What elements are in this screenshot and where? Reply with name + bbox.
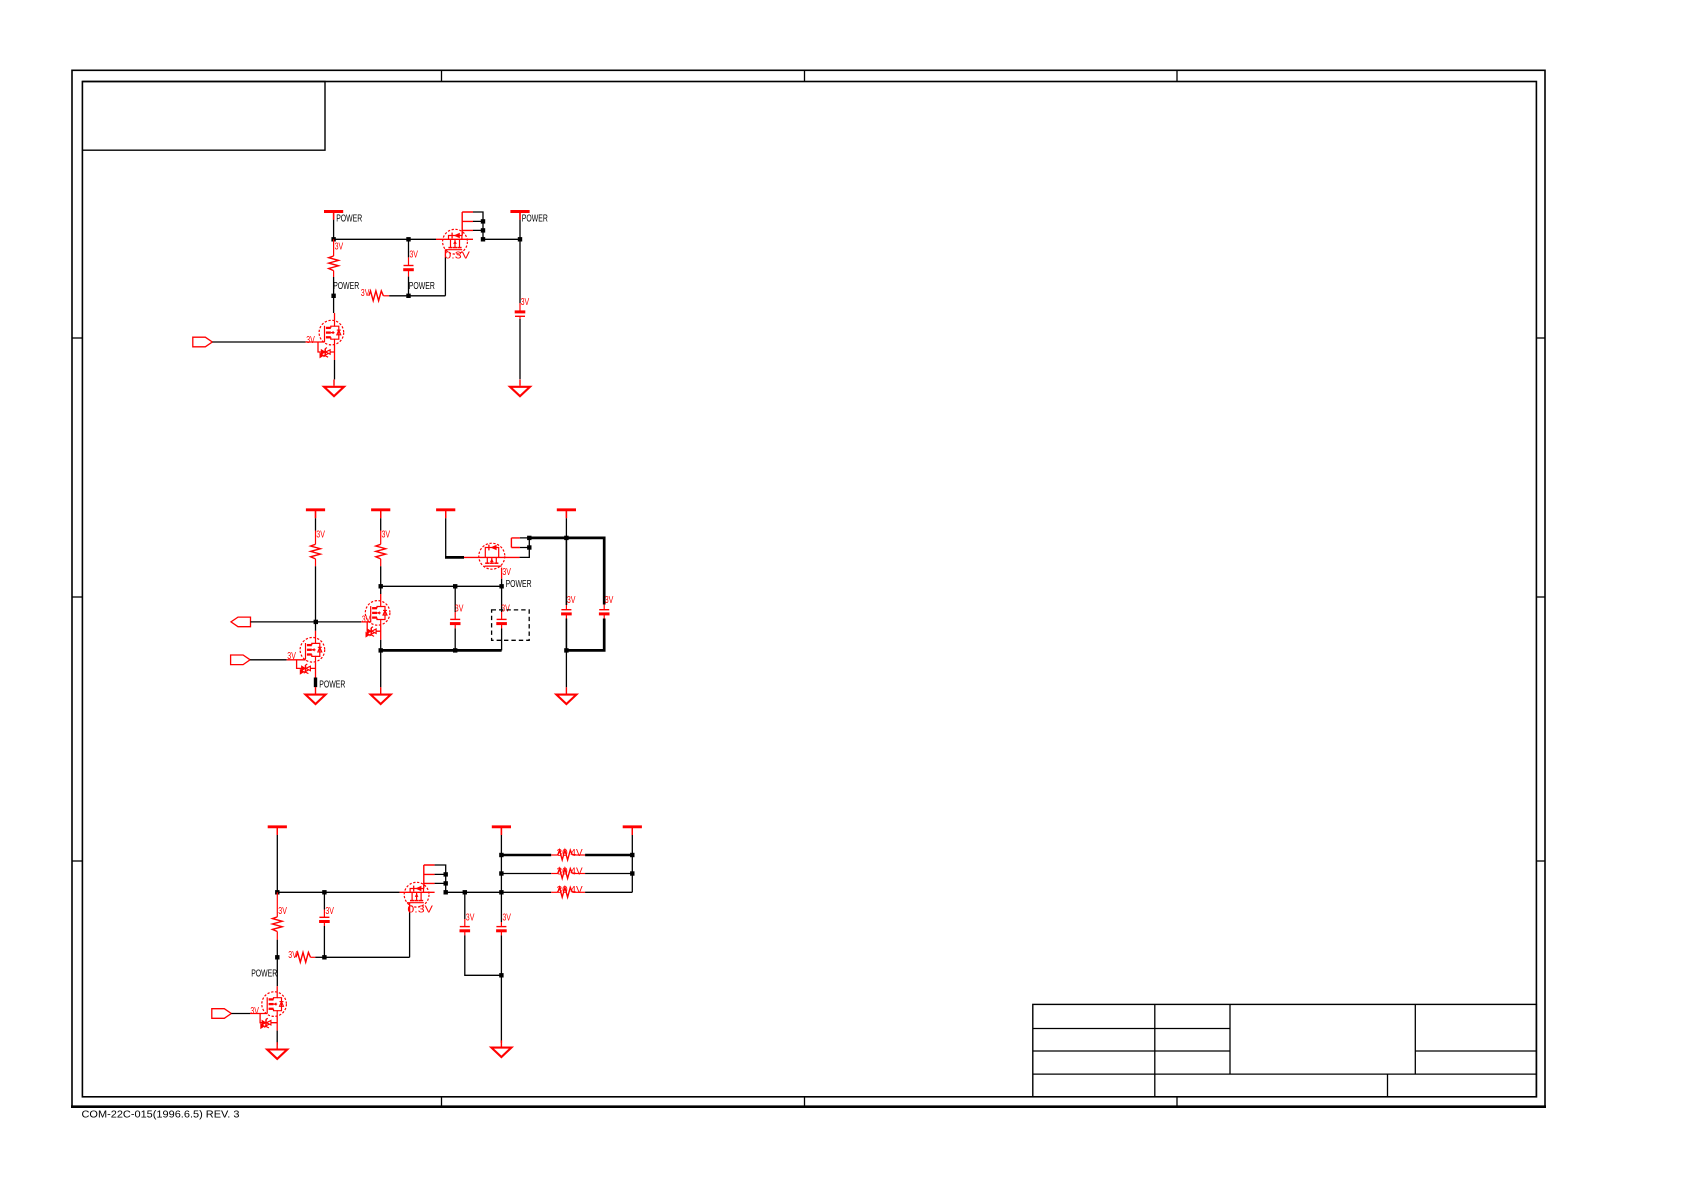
revision box top-left: [82, 82, 325, 151]
capacitor C6 with leads: [496, 586, 507, 650]
input flag top circuit: [193, 337, 213, 347]
drawing frame outer border: [72, 70, 1545, 1106]
svg-text:POWER: POWER: [251, 968, 277, 980]
Q6 pin bus red: [424, 865, 435, 889]
title block row line 1: [1033, 1028, 1230, 1030]
wire R3 to node D2: [315, 566, 317, 622]
wire R1 to node C1: [333, 277, 335, 296]
node R3 junction: [499, 973, 503, 977]
node P2 junction: [499, 871, 503, 875]
mosfet Q5 n-channel: [300, 638, 325, 663]
mosfet Q6 p-channel: [404, 882, 429, 907]
node M3 junction: [275, 955, 279, 959]
power symbol POWER top-left: [324, 212, 343, 220]
resistor R9 row3: [501, 887, 632, 897]
svg-text:3V: 3V: [501, 603, 510, 615]
power bar bottom-middle stub: [500, 827, 502, 855]
wire node E2 to node F2: [381, 585, 456, 587]
dashed option box around C6: [492, 610, 530, 640]
power bar bottom-left: [268, 827, 287, 835]
power bar 3 middle circuit: [436, 510, 455, 518]
title block row line 2 left: [1033, 1050, 1230, 1052]
mosfet Q3 n-channel: [365, 601, 390, 626]
power bar 3 stub and L wire to Q4: [445, 510, 464, 558]
node A junction: [331, 237, 335, 241]
wire node N3b to Q6 source: [324, 956, 409, 958]
Q5 source with bus stub: [314, 662, 317, 688]
resistor R2 horizontal: [369, 291, 389, 301]
ground symbol left of top circuit: [324, 380, 344, 397]
node E1 junction: [518, 237, 522, 241]
power bar 2 stub: [380, 510, 382, 531]
wire R4 to node E2: [380, 566, 382, 586]
frame zone tick left 1: [72, 337, 82, 339]
input flag bottom circuit: [212, 1009, 232, 1019]
wire node D1 to Q1 source: [409, 295, 446, 297]
node Q2r junction: [630, 871, 634, 875]
frame zone tick top 2: [804, 70, 806, 81]
frame zone tick right 2: [1536, 596, 1545, 598]
node J2 junction: [564, 648, 568, 652]
drawing frame inner border: [82, 82, 1536, 1097]
wire power2 stub: [519, 212, 521, 240]
svg-text:3V: 3V: [325, 905, 334, 917]
svg-text:3V: 3V: [278, 905, 287, 917]
Q1 pin bus red: [462, 212, 473, 236]
resistor R6 horizontal: [296, 952, 315, 962]
frame zone tick top 3: [1176, 70, 1178, 81]
left column wire bottom circuit: [500, 855, 502, 922]
svg-text:3V: 3V: [382, 529, 391, 541]
thick wire bottom of middle box: [381, 649, 502, 652]
Q6 source lead down: [409, 903, 411, 958]
node N3 junction: [463, 890, 467, 894]
power bar bottom-right stub: [631, 827, 633, 855]
power symbol POWER top-right: [510, 212, 529, 220]
capacitor C9 with leads: [496, 922, 507, 975]
thick wire top right middle circuit: [529, 538, 604, 605]
wire flag to Q2 gate: [212, 341, 324, 343]
svg-text:3V: 3V: [521, 296, 530, 308]
wire to mosfet Q4: [464, 556, 520, 558]
wire node R3 to ground: [500, 975, 502, 1043]
drawing frame outer border bottom thick line: [71, 1105, 1546, 1108]
Q6 pin junction 3: [444, 890, 448, 894]
svg-text:3V: 3V: [455, 603, 464, 615]
input flag 2 middle circuit: [231, 655, 251, 665]
svg-text:POWER: POWER: [333, 280, 359, 292]
wire R5 to node M3: [276, 940, 278, 958]
ground symbol right middle circuit: [556, 687, 576, 704]
svg-text:3V: 3V: [250, 1005, 259, 1017]
wire node E2 to Q3 drain: [380, 586, 382, 600]
wire node D2 to Q3 gate: [316, 621, 371, 623]
Q1 source lead down: [444, 250, 446, 296]
title block column line 3: [1414, 1004, 1416, 1074]
ground symbol under Q5: [306, 687, 326, 704]
svg-text:3V: 3V: [316, 529, 325, 541]
input flag 1 middle circuit: [231, 617, 251, 627]
node G2 junction: [499, 584, 503, 588]
wire flag1 to node D2: [251, 621, 316, 623]
Q1 pin junction 1: [481, 219, 485, 223]
title block column line 1: [1154, 1004, 1156, 1096]
node I2b junction: [453, 648, 457, 652]
wire node B to Q1: [409, 238, 474, 240]
frame zone tick bottom 1: [441, 1097, 443, 1107]
Q6 pin bus black: [435, 865, 446, 892]
wire power1 stub: [333, 212, 335, 240]
wire R2 to node D1: [389, 295, 408, 297]
wire flag2 to Q5 gate: [250, 659, 306, 661]
power bar 4 middle circuit: [557, 510, 576, 518]
capacitor C5 with leads: [450, 586, 461, 650]
svg-text:POWER: POWER: [336, 213, 362, 225]
title block outline: [1033, 1004, 1537, 1096]
esd diode pair Q2: [318, 342, 335, 358]
capacitor C8 with leads: [460, 892, 502, 975]
power bar 1 stub: [315, 510, 317, 531]
node N3b junction: [322, 955, 326, 959]
node Q1r junction: [630, 853, 634, 857]
Q7 source to ground: [276, 1017, 278, 1045]
Q3 source down to node I2: [380, 625, 382, 650]
svg-text:30.4V: 30.4V: [557, 847, 583, 859]
svg-text:3V: 3V: [502, 912, 511, 924]
wire node C1 to Q2 drain: [333, 296, 336, 320]
title block bottom row divider: [1387, 1074, 1389, 1097]
mosfet Q4 p-channel: [479, 543, 505, 569]
frame zone tick right 3: [1536, 860, 1545, 862]
ground symbol under Q3: [371, 687, 391, 704]
svg-text:3V: 3V: [466, 912, 475, 924]
right column wire bottom circuit: [631, 855, 633, 892]
resistor R7 row1 thick: [501, 850, 632, 860]
node P3 junction: [499, 890, 503, 894]
frame zone tick left 3: [72, 860, 82, 862]
wire node D2 to Q5 drain: [315, 622, 317, 638]
Q4 pin bus red: [511, 538, 520, 548]
wire node A to node B: [334, 238, 409, 240]
frame zone tick left 2: [72, 596, 82, 598]
Q4 pin junction 1: [527, 536, 531, 540]
mosfet Q7 n-channel: [262, 992, 287, 1017]
wire Q1 to node E1: [483, 238, 520, 240]
capacitor C3 with leads: [561, 538, 572, 651]
capacitor C1 with leads: [403, 239, 414, 295]
node C1 junction: [331, 294, 335, 298]
esd diode pair Q3: [366, 622, 381, 637]
resistor R8 row2: [501, 869, 632, 879]
ground symbol right of top circuit: [510, 380, 530, 397]
svg-text:3V: 3V: [287, 650, 296, 662]
wire Q6 to node N3: [446, 891, 465, 893]
node K3 junction: [275, 890, 279, 894]
Q6 pin junction 1: [444, 872, 448, 876]
capacitor C4 with leads: [566, 605, 609, 651]
svg-text:3V: 3V: [409, 249, 418, 261]
svg-text:30.4V: 30.4V: [557, 865, 583, 877]
title block row line 3: [1033, 1073, 1537, 1075]
node D2 junction: [314, 620, 318, 624]
svg-text:POWER: POWER: [522, 213, 548, 225]
Q1 pin bus black: [473, 212, 483, 239]
resistor R3 vertical: [311, 531, 321, 567]
svg-text:0.3V: 0.3V: [407, 904, 433, 916]
node B junction: [406, 237, 410, 241]
svg-text:3V: 3V: [605, 594, 614, 606]
wire node K3 to node L3: [277, 891, 324, 893]
resistor R1 vertical: [329, 239, 339, 277]
svg-text:3V: 3V: [306, 334, 315, 346]
svg-text:3V: 3V: [335, 241, 344, 253]
resistor R4 vertical: [376, 531, 386, 567]
power bar bottom-right: [623, 827, 642, 835]
Q2 source to ground: [334, 345, 336, 379]
node E2 junction: [379, 584, 383, 588]
resistor R5 vertical: [272, 892, 282, 939]
node L3 junction: [322, 890, 326, 894]
title block column line 2: [1229, 1004, 1231, 1074]
capacitor C7 with leads: [319, 892, 330, 957]
frame zone tick right 1: [1536, 337, 1545, 339]
wire node L3 to Q6: [324, 891, 434, 893]
svg-text:3V: 3V: [567, 594, 576, 606]
svg-text:POWER: POWER: [319, 678, 345, 690]
node I2 junction at Q3 source: [379, 648, 383, 652]
node D1 junction: [406, 294, 410, 298]
ground symbol under Q7: [267, 1042, 287, 1059]
svg-text:3V: 3V: [361, 287, 370, 299]
wire node N3 to node P3: [465, 891, 502, 893]
svg-text:3V: 3V: [288, 949, 297, 961]
Q4 pin junction 2: [527, 545, 531, 549]
power bar 1 middle circuit: [306, 510, 325, 518]
wire node F2 to node G2: [455, 585, 501, 587]
frame zone tick bottom 3: [1176, 1097, 1178, 1107]
wire node M3 to Q7 drain: [276, 957, 278, 992]
esd diode pair Q7: [260, 1014, 277, 1029]
frame zone tick bottom 2: [804, 1097, 806, 1107]
mosfet Q2 n-channel: [319, 320, 344, 345]
svg-text:0.3V: 0.3V: [444, 249, 470, 261]
wire R6 to node N3b: [315, 956, 324, 958]
svg-text:COM-22C-015(1996.6.5) REV. 3: COM-22C-015(1996.6.5) REV. 3: [82, 1108, 240, 1120]
title block row line 2 right: [1415, 1050, 1536, 1052]
power bar bottom-middle: [492, 827, 511, 835]
capacitor C2 with leads: [515, 239, 526, 379]
node H2 junction: [564, 536, 568, 540]
wire flag to Q7 gate: [231, 1013, 267, 1015]
node P1 junction: [499, 853, 503, 857]
svg-text:30.4V: 30.4V: [557, 884, 583, 896]
wire Q3 source to ground: [380, 650, 382, 687]
power bar 2 middle circuit: [371, 510, 390, 518]
node F2 junction: [453, 584, 457, 588]
frame zone tick top 1: [441, 70, 443, 81]
svg-text:POWER: POWER: [409, 280, 435, 292]
mosfet Q1 p-channel: [443, 229, 468, 254]
power bar 4 stub: [565, 510, 567, 538]
ground symbol bottom right: [491, 1040, 511, 1057]
wire node J2 to ground: [565, 650, 567, 687]
Q4 drain lead down to node G2: [501, 568, 503, 587]
power bar bottom-left stub: [276, 827, 278, 893]
Q6 pin junction 2: [444, 881, 448, 885]
svg-text:POWER: POWER: [506, 578, 532, 590]
Q1 pin junction 2: [481, 228, 485, 232]
Q4 pin bus black: [520, 538, 530, 558]
Q1 pin junction 3: [481, 237, 485, 241]
esd diode pair Q5: [297, 660, 316, 674]
svg-text:3V: 3V: [502, 566, 511, 578]
